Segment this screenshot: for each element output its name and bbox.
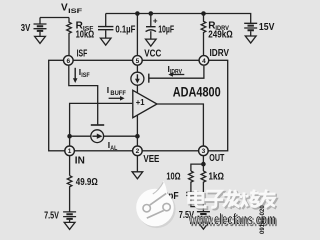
label IAL	[108, 140, 118, 152]
pin 3	[199, 146, 209, 156]
pin 5	[133, 56, 143, 66]
battery V2 15V	[244, 23, 257, 36]
svg-text:I: I	[107, 85, 109, 95]
wire OUT stub	[202, 155, 204, 171]
svg-text:VEE: VEE	[143, 154, 159, 165]
current source IAL	[91, 130, 104, 143]
char shao	[241, 190, 259, 208]
svg-text:IDRV: IDRV	[170, 69, 182, 75]
char you	[259, 190, 276, 208]
ground G4	[245, 36, 256, 43]
svg-text:V: V	[61, 3, 68, 14]
svg-text:49.9Ω: 49.9Ω	[76, 177, 98, 188]
svg-text:249kΩ: 249kΩ	[208, 30, 232, 41]
junction dot VCC	[135, 11, 140, 16]
svg-text:ADA4800: ADA4800	[173, 84, 221, 100]
battery V4 7.5V	[197, 212, 210, 222]
label RISF	[76, 21, 94, 33]
svg-text:1: 1	[68, 148, 72, 155]
capacitor C3 2pF	[186, 193, 195, 196]
wire snubber branch	[191, 164, 204, 171]
svg-text:ISF: ISF	[77, 48, 88, 59]
wire VCC to source	[136, 65, 138, 72]
svg-text:3V: 3V	[21, 23, 31, 34]
svg-text:3: 3	[202, 148, 206, 155]
svg-text:+1: +1	[136, 97, 145, 107]
bias bar ISF	[91, 124, 104, 126]
pin 4	[199, 56, 209, 66]
ground G3	[146, 39, 157, 46]
junction dot RIDRV	[201, 11, 206, 16]
wire VISF rail	[40, 17, 69, 19]
current source IBUFF	[131, 72, 144, 85]
svg-text:10Ω: 10Ω	[166, 172, 180, 183]
package box ADA4800	[49, 60, 228, 151]
pin 2	[133, 146, 143, 156]
watermark url	[188, 212, 277, 230]
svg-text:15V: 15V	[259, 22, 275, 33]
label IIDRV	[168, 64, 183, 75]
annotation arrow IISF	[73, 68, 78, 83]
svg-text:ISF: ISF	[68, 8, 82, 15]
junction dot IN	[67, 134, 72, 139]
wire IN internal	[70, 103, 133, 146]
capacitor C2 10uF	[150, 14, 152, 27]
char zi	[205, 191, 224, 207]
svg-text:IDRV: IDRV	[210, 48, 230, 59]
label RIDRV	[208, 20, 229, 32]
wire IDRV internal	[149, 66, 204, 78]
label IBUFF	[107, 85, 126, 97]
char dian	[189, 190, 205, 207]
resistor R2 10	[189, 171, 194, 192]
svg-text:0.1µF: 0.1µF	[115, 24, 135, 35]
svg-text:BUFF: BUFF	[110, 91, 126, 97]
watermark logo	[136, 181, 175, 228]
pin 1	[65, 146, 75, 156]
svg-text:+: +	[153, 17, 158, 26]
resistor RISF	[67, 18, 72, 56]
wire VCC down	[136, 14, 138, 56]
annotation arrow IIDRV	[168, 72, 184, 77]
svg-text:10µF: 10µF	[158, 24, 174, 35]
ground G2	[100, 38, 111, 45]
ground G1	[35, 36, 46, 43]
svg-text:10kΩ: 10kΩ	[76, 29, 95, 40]
char fa	[223, 190, 240, 208]
battery V3 7.5V	[63, 212, 76, 222]
junction dot VEE	[135, 134, 140, 139]
watermark CJK stroke layers	[189, 190, 277, 209]
resistor R3 1k	[201, 171, 206, 212]
resistor RIDRV	[201, 14, 206, 57]
wire IAL left	[70, 135, 91, 137]
svg-text:09160-020: 09160-020	[260, 205, 266, 234]
label IISF	[79, 67, 90, 79]
svg-text:7.5V: 7.5V	[44, 211, 59, 222]
svg-text:4: 4	[202, 58, 206, 65]
wire VEE stub	[136, 155, 138, 171]
wire ISF internal	[69, 65, 98, 125]
pin 6	[64, 56, 74, 66]
svg-text:VCC: VCC	[144, 49, 161, 60]
op-amp U1 buffer	[133, 90, 157, 117]
wire VCC top rail	[106, 14, 251, 24]
ground G5	[132, 172, 143, 179]
ground G6	[64, 222, 75, 229]
junction dot OUT	[201, 162, 206, 167]
bias bar IDRV	[148, 74, 150, 83]
svg-text:AL: AL	[110, 146, 117, 152]
svg-text:2: 2	[136, 148, 140, 155]
wire IAL right	[104, 135, 138, 137]
ground G7	[198, 222, 209, 229]
wire battery V1 stub	[39, 18, 41, 24]
wire buffer bottom	[136, 115, 138, 146]
svg-text:OUT: OUT	[209, 153, 224, 164]
capacitor C1 0.1uF	[105, 14, 107, 27]
node VISF label	[61, 3, 82, 15]
svg-text:1kΩ: 1kΩ	[209, 172, 224, 183]
annotation arrow IBUFF	[109, 96, 125, 101]
svg-text:IN: IN	[75, 155, 85, 166]
junction dot C2	[149, 11, 154, 16]
svg-text:ISF: ISF	[81, 73, 90, 79]
battery V1 3V	[34, 24, 47, 36]
watermark CJK text	[189, 190, 276, 208]
svg-text:6: 6	[66, 58, 70, 65]
svg-text:5: 5	[136, 58, 140, 65]
wire OUT internal	[157, 104, 203, 146]
resistor R1 49.9	[67, 176, 72, 212]
wire source to buffer	[136, 85, 138, 93]
wire IN stub	[69, 155, 71, 175]
